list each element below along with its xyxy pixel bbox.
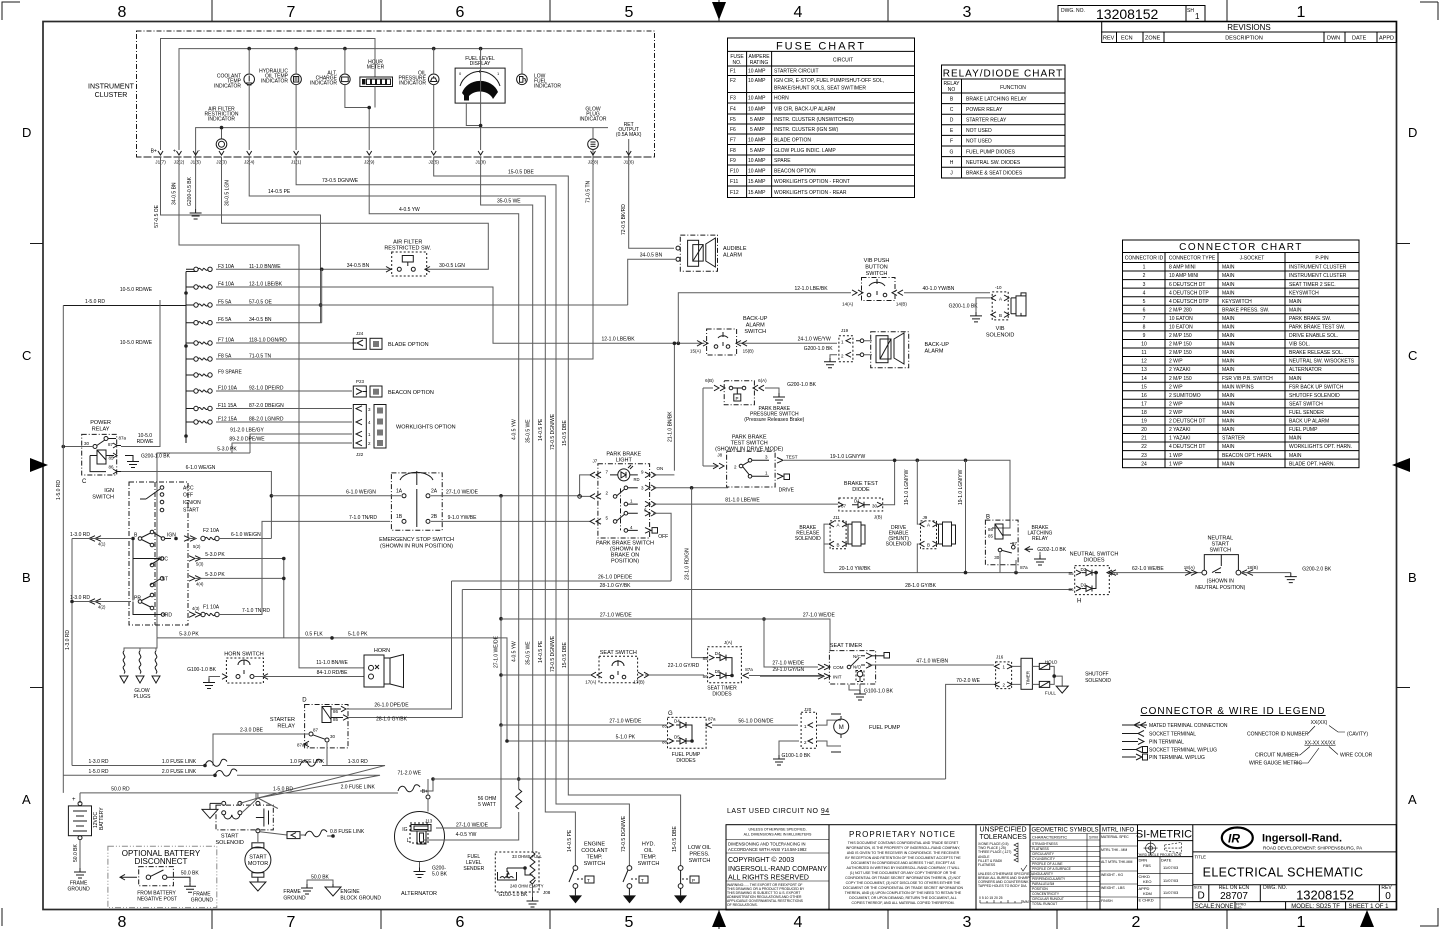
svg-text:28-1.0 GY/BK: 28-1.0 GY/BK: [600, 583, 632, 589]
svg-text:2: 2: [1132, 914, 1141, 929]
svg-text:J19: J19: [841, 328, 849, 333]
svg-text:MAIN: MAIN: [1289, 376, 1302, 382]
svg-text:27-1.0 WE/DE: 27-1.0 WE/DE: [446, 489, 479, 495]
svg-text:7: 7: [287, 4, 296, 21]
svg-text:10 AMP: 10 AMP: [748, 78, 766, 84]
svg-text:G200-0.5 BK: G200-0.5 BK: [187, 176, 193, 206]
svg-text:THIRD ANGLE PROJECTION: THIRD ANGLE PROJECTION: [1137, 853, 1182, 857]
svg-text:23: 23: [1141, 453, 1147, 459]
svg-text:1-3.0 RD: 1-3.0 RD: [70, 532, 90, 538]
start solenoid: [202, 793, 287, 846]
svg-text:F8: F8: [730, 148, 736, 154]
svg-text:SEAT SWITCH: SEAT SWITCH: [600, 650, 637, 656]
svg-text:TEMP.: TEMP.: [640, 855, 657, 861]
svg-text:KDM: KDM: [1143, 891, 1152, 896]
svg-text:2 M/P 280: 2 M/P 280: [1169, 307, 1192, 313]
svg-text:M: M: [839, 725, 844, 731]
svg-text:B: B: [837, 543, 840, 548]
svg-text:HORN: HORN: [774, 96, 789, 102]
wire 15-0.5 DBE: [434, 157, 681, 866]
wire 12-1.0 LBE/BK to blade (right side): [836, 342, 838, 344]
svg-text:50.0 BK: 50.0 BK: [181, 870, 199, 876]
svg-text:P: P: [736, 396, 739, 401]
svg-text:INFORMATION, IS THE PROPERTY O: INFORMATION, IS THE PROPERTY OF INGERSOL…: [846, 846, 960, 850]
svg-text:(CAVITY): (CAVITY): [1347, 732, 1368, 738]
wire 71-0.5 TN: [216, 157, 593, 359]
cluster top bus line 1: [161, 39, 376, 151]
svg-text:RELAY/DIODE CHART: RELAY/DIODE CHART: [943, 69, 1064, 80]
svg-text:86: 86: [703, 674, 709, 679]
svg-text:(1) NOT USE THE DOCUMENT OR AN: (1) NOT USE THE DOCUMENT OR ANY COPY THE…: [850, 871, 957, 875]
back-up alarm switch: [690, 316, 768, 355]
seat timer: [760, 617, 994, 700]
Ingersoll-Rand logo: [1222, 828, 1363, 851]
svg-text:INGERSOLL-RAND COMPANY: INGERSOLL-RAND COMPANY: [728, 866, 827, 873]
svg-text:9-1.0 YW/BE: 9-1.0 YW/BE: [448, 515, 477, 521]
svg-text:2 W/P: 2 W/P: [1169, 402, 1183, 408]
svg-text:D5: D5: [674, 735, 680, 740]
svg-text:NO.: NO.: [1236, 906, 1242, 910]
svg-text:85: 85: [662, 724, 668, 729]
svg-text:MAIN: MAIN: [1222, 325, 1235, 331]
svg-text:1 W/P: 1 W/P: [1169, 453, 1183, 459]
fuse F6: [186, 317, 272, 325]
REVISIONS table: [1102, 22, 1397, 43]
svg-text:CONCENTRICITY: CONCENTRICITY: [1032, 892, 1060, 896]
svg-text:2: 2: [1143, 273, 1146, 279]
svg-text:+: +: [72, 797, 76, 803]
svg-text:INDICATOR: INDICATOR: [579, 117, 606, 123]
svg-text:2B: 2B: [431, 514, 438, 520]
svg-text:MODEL: SD25 TF: MODEL: SD25 TF: [1291, 904, 1340, 910]
svg-text:NEUTRAL SW. DIODES: NEUTRAL SW. DIODES: [966, 160, 1021, 166]
wire 56-1.0 DGN/DE: [712, 724, 798, 726]
svg-text:N/O: N/O: [853, 665, 862, 670]
svg-text:CONNECTOR ID NUMBER: CONNECTOR ID NUMBER: [1247, 732, 1309, 738]
svg-text:5 AMP: 5 AMP: [750, 148, 765, 154]
svg-text:EMERGENCY STOP SWITCH: EMERGENCY STOP SWITCH: [379, 537, 454, 543]
svg-text:E CHKD: E CHKD: [1139, 898, 1154, 903]
svg-text:THEREIN, AND (4) UPON COMPLETI: THEREIN, AND (4) UPON COMPLETION OF THE …: [845, 891, 962, 895]
svg-text:THIS DOCUMENT CONTAINS CONFIDE: THIS DOCUMENT CONTAINS CONFIDENTIAL AND …: [848, 841, 959, 845]
svg-text:14: 14: [1141, 376, 1147, 382]
wire 9-1.0 YW/BE: [431, 520, 590, 522]
svg-text:REV: REV: [1103, 36, 1115, 42]
connector J19: [824, 328, 864, 368]
svg-text:240 OHM EMPTY: 240 OHM EMPTY: [510, 884, 544, 889]
svg-text:30: 30: [994, 555, 1000, 560]
svg-text:(0.5A MAX): (0.5A MAX): [616, 132, 642, 138]
svg-text:50.0 RD: 50.0 RD: [111, 786, 130, 792]
svg-text:10 AMP MINI: 10 AMP MINI: [1169, 273, 1198, 279]
svg-text:AND IS GIVEN TO THE RECEIVER: AND IS GIVEN TO THE RECEIVER IN CONFIDEN…: [847, 851, 960, 855]
wire 34-0.5 BN into alarm: [628, 259, 676, 305]
svg-text:SYM: SYM: [1089, 835, 1098, 840]
svg-text:87: 87: [313, 728, 319, 733]
wire 27-1.0 WE/DE out of estop: [431, 495, 580, 497]
glow plugs: [120, 632, 507, 742]
svg-text:19-1.0 LGN/YW: 19-1.0 LGN/YW: [958, 469, 964, 505]
svg-text:PARK BRAKE SW.: PARK BRAKE SW.: [1289, 316, 1331, 322]
svg-text:IGN CIR, E-STOP, FUEL PUMP/SHU: IGN CIR, E-STOP, FUEL PUMP/SHUT-OFF SOL,: [774, 78, 884, 84]
wire 72-0.5 BK/RD: [629, 157, 674, 248]
svg-text:J11: J11: [833, 515, 840, 520]
svg-text:MAIN: MAIN: [1289, 307, 1302, 313]
svg-text:ACCORDANCE WITH ANSI Y14.5M-19: ACCORDANCE WITH ANSI Y14.5M-1982: [728, 847, 807, 852]
svg-text:START: START: [249, 855, 267, 861]
alternator: [395, 725, 946, 897]
coolant temp indicator: [214, 49, 255, 150]
svg-text:15-0.5 DBE: 15-0.5 DBE: [562, 641, 568, 668]
svg-text:B: B: [1408, 570, 1417, 585]
svg-text:J-SOCKET: J-SOCKET: [1240, 256, 1265, 262]
svg-text:20: 20: [1141, 427, 1147, 433]
fuse bus left: [63, 272, 196, 447]
svg-text:ECN: ECN: [1121, 36, 1133, 42]
horn: [364, 648, 404, 688]
wire 62-1.0 WE/BE: [1110, 572, 1202, 574]
svg-text:FUEL PUMP: FUEL PUMP: [869, 725, 901, 731]
svg-text:2 W/P: 2 W/P: [1169, 384, 1183, 390]
svg-text:17(A): 17(A): [585, 679, 597, 684]
svg-text:BRAKE RELEASE SOL.: BRAKE RELEASE SOL.: [1289, 350, 1343, 356]
svg-text:NEUTRAL SW. W/SOCKETS: NEUTRAL SW. W/SOCKETS: [1289, 359, 1355, 365]
svg-text:0: 0: [1385, 891, 1391, 902]
wires below instrument cluster: [154, 157, 681, 866]
seat switch: [501, 650, 704, 684]
pin1: [624, 502, 628, 506]
svg-text:(Pressure Releases Brake): (Pressure Releases Brake): [744, 417, 804, 423]
led: [618, 469, 630, 481]
pin arrows + ids: [89, 536, 101, 542]
svg-text:CONNECTOR ID: CONNECTOR ID: [1125, 256, 1164, 262]
svg-text:G200-1.0 BK: G200-1.0 BK: [949, 303, 979, 309]
svg-text:50.0 BK: 50.0 BK: [73, 844, 79, 862]
svg-text:GEOMETRIC SYMBOLS: GEOMETRIC SYMBOLS: [1031, 828, 1098, 834]
svg-text:H: H: [950, 160, 954, 166]
wire F6: [216, 322, 322, 324]
svg-text:BACK UP ALARM: BACK UP ALARM: [1289, 419, 1329, 425]
svg-text:14-0.5 PE: 14-0.5 PE: [538, 418, 544, 441]
optional battery disconnect: [108, 846, 217, 907]
wire A,B to 20-1.0: [824, 524, 828, 573]
hour meter: [360, 60, 393, 110]
wire F4 12-1.0 LBE/BK: [216, 287, 837, 343]
svg-text:89-2.0 DPE/WE: 89-2.0 DPE/WE: [229, 437, 265, 443]
battery: [67, 797, 105, 893]
wire 81-1.0 LBE/WE: [653, 503, 838, 505]
svg-text:24-1.0 WE/YW: 24-1.0 WE/YW: [798, 337, 831, 343]
back-up alarm: [864, 332, 949, 368]
svg-text:MAIN: MAIN: [1222, 342, 1235, 348]
svg-text:IGN/ON: IGN/ON: [183, 500, 201, 506]
svg-text:MATERIAL SPEC: MATERIAL SPEC: [1101, 835, 1129, 839]
hyd oil temp switch: [621, 815, 659, 903]
svg-text:HORN SWITCH: HORN SWITCH: [224, 652, 263, 658]
bottom tick marks: [212, 910, 1227, 929]
DWG NO box top: [1058, 6, 1205, 23]
svg-text:2A: 2A: [431, 489, 438, 495]
svg-text:BLADE OPT. HARN.: BLADE OPT. HARN.: [1289, 461, 1335, 467]
wire 26-1.0 DPE/DE to relay: [346, 581, 452, 709]
svg-text:COPY THE DOCUMENT, (3) NOT DIS: COPY THE DOCUMENT, (3) NOT DISCLOSE TO O…: [846, 881, 961, 885]
fuse F8: [186, 354, 272, 362]
svg-text:CIRCUIT: CIRCUIT: [833, 58, 853, 64]
svg-text:MAIN: MAIN: [1289, 299, 1302, 305]
svg-text:57-0.5 OE: 57-0.5 OE: [154, 204, 160, 227]
svg-text:UNSPECIFIED: UNSPECIFIED: [979, 827, 1026, 834]
svg-text:2 M/P 150: 2 M/P 150: [1169, 333, 1192, 339]
svg-text:1 YAZAKI: 1 YAZAKI: [1169, 436, 1191, 442]
svg-text:STARTER RELAY: STARTER RELAY: [966, 118, 1007, 124]
wire 27-1.0 WE/DE long mid: [501, 619, 830, 650]
wire J7 pin6 down to 26-1.0: [653, 513, 671, 581]
svg-text:MAIN: MAIN: [1222, 273, 1235, 279]
svg-text:N/C: N/C: [853, 654, 862, 659]
svg-text:F6: F6: [730, 127, 736, 133]
svg-text:10 EATON: 10 EATON: [1169, 325, 1193, 331]
svg-text:10 EATON: 10 EATON: [1169, 316, 1193, 322]
oil pressure indicator: [398, 49, 439, 150]
svg-text:ALL RIGHTS RESERVED: ALL RIGHTS RESERVED: [728, 875, 809, 882]
svg-text:1-3.0 RD: 1-3.0 RD: [88, 759, 108, 765]
svg-text:14(B): 14(B): [896, 302, 908, 307]
svg-text:35-0.5 WE: 35-0.5 WE: [526, 641, 532, 665]
svg-text:C: C: [82, 479, 87, 485]
svg-text:4-0.5 YW: 4-0.5 YW: [512, 419, 518, 440]
svg-text:11/07/03: 11/07/03: [1163, 890, 1179, 895]
fuse F5: [186, 300, 272, 308]
svg-text:12-1.0 LBE/BK: 12-1.0 LBE/BK: [601, 337, 635, 343]
svg-text:ALT MTRL THK-MM: ALT MTRL THK-MM: [1101, 860, 1132, 864]
svg-text:50.0 BK: 50.0 BK: [311, 875, 329, 881]
svg-text:OFF: OFF: [658, 534, 668, 540]
svg-text:WORKLIGHTS OPTION - FRONT: WORKLIGHTS OPTION - FRONT: [774, 179, 850, 185]
svg-text:NOT USED: NOT USED: [966, 128, 992, 134]
svg-text:3: 3: [963, 914, 972, 929]
svg-text:GROUND: GROUND: [191, 898, 214, 904]
svg-text:IR: IR: [1228, 832, 1240, 846]
node joining 57OE/F6: [321, 269, 323, 322]
svg-text:1-5.0 RD: 1-5.0 RD: [88, 769, 108, 775]
zone letters left: [22, 125, 31, 807]
instrument cluster: [88, 31, 655, 165]
svg-text:RELAY: RELAY: [1032, 536, 1049, 542]
svg-text:P23: P23: [356, 379, 365, 384]
svg-text:F5: F5: [730, 117, 736, 123]
svg-text:72-0.5 BK/RD: 72-0.5 BK/RD: [621, 204, 627, 235]
svg-text:1 W/P: 1 W/P: [1169, 461, 1183, 467]
svg-text:A: A: [837, 523, 840, 528]
svg-text:D: D: [22, 125, 31, 140]
wire 21-1.0 BN/BK: [673, 343, 675, 470]
svg-text:F5 5A: F5 5A: [218, 300, 232, 306]
svg-text:D: D: [1198, 891, 1205, 902]
svg-text:SOCKET TERMINAL: SOCKET TERMINAL: [1149, 732, 1196, 738]
wire J7 pin9 to 21-1.0: [653, 474, 674, 476]
fuse F3: [186, 264, 281, 272]
svg-text:MTRL THK - MM: MTRL THK - MM: [1101, 848, 1127, 852]
brake release solenoid: [795, 515, 865, 573]
svg-text:BEACON OPT. HARN.: BEACON OPT. HARN.: [1222, 453, 1273, 459]
svg-text:FINISH: FINISH: [1101, 899, 1113, 903]
svg-text:MOTOR: MOTOR: [248, 861, 268, 867]
svg-text:J16: J16: [996, 655, 1004, 660]
svg-text:6-1.0 WE/GN: 6-1.0 WE/GN: [346, 489, 376, 495]
svg-text:18: 18: [1141, 410, 1147, 416]
logo + title + numbers: [1193, 828, 1397, 911]
svg-text:28707: 28707: [1220, 891, 1248, 902]
svg-text:B: B: [999, 313, 1002, 318]
svg-text:SOLENOID: SOLENOID: [986, 333, 1014, 339]
svg-text:F7: F7: [730, 138, 736, 144]
svg-text:COM: COM: [833, 665, 844, 670]
svg-text:NOT USED: NOT USED: [966, 139, 992, 145]
svg-text:71-2.0 WE: 71-2.0 WE: [397, 770, 421, 776]
horn switch: [187, 652, 364, 689]
wire J7 pin3 to test switch: [653, 487, 728, 489]
svg-text:J08: J08: [543, 890, 551, 895]
wire 29-1.0 into INIT: [760, 675, 824, 677]
svg-text:F1: F1: [730, 69, 736, 75]
wire feeds into solenoid: [240, 793, 278, 813]
last used circuit note: [727, 808, 830, 815]
ret output note: [616, 122, 642, 157]
svg-text:34-0.5 BN: 34-0.5 BN: [640, 253, 663, 259]
svg-text:1-5.0 RD: 1-5.0 RD: [273, 786, 293, 792]
svg-text:62-1.0 WE/BE: 62-1.0 WE/BE: [1132, 566, 1164, 572]
svg-text:MAIN: MAIN: [1222, 359, 1235, 365]
svg-text:MAIN W/PINS: MAIN W/PINS: [1222, 384, 1254, 390]
svg-text:SCALE:NONE: SCALE:NONE: [1195, 904, 1234, 910]
fuse F1: [201, 521, 390, 616]
svg-text:6(A): 6(A): [758, 378, 767, 383]
svg-text:1.0 FUSE LINK: 1.0 FUSE LINK: [290, 759, 325, 765]
svg-text:FULL: FULL: [1045, 691, 1057, 696]
svg-text:F12: F12: [730, 190, 739, 196]
svg-text:KEYSWITCH: KEYSWITCH: [1222, 299, 1252, 305]
svg-text:DOCUMENT, OR UPON DEMAND, RETU: DOCUMENT, OR UPON DEMAND, RETURN THE DOC…: [849, 896, 957, 900]
svg-text:2 M/P 150: 2 M/P 150: [1169, 350, 1192, 356]
svg-text:15-0.5 DBE: 15-0.5 DBE: [508, 170, 535, 176]
svg-text:15(A): 15(A): [690, 349, 702, 354]
svg-text:20-1.0 YW/BK: 20-1.0 YW/BK: [839, 566, 871, 572]
svg-text:2 W/P: 2 W/P: [1169, 410, 1183, 416]
svg-text:5-3.0 PK: 5-3.0 PK: [179, 632, 199, 638]
svg-text:1: 1: [1297, 914, 1306, 929]
ground G200-0.5 BK: [195, 157, 197, 209]
svg-text:CLUSTER: CLUSTER: [95, 92, 128, 99]
wire relay out bottom 6-1.0 WE/GN: [121, 472, 271, 539]
svg-text:FUEL PUMP DIODES: FUEL PUMP DIODES: [966, 149, 1016, 155]
wire 47-1.0 WE/BN: [868, 664, 994, 666]
col3 unspecified tolerances: [978, 827, 1033, 905]
connector P23 beacon option: [353, 379, 434, 397]
svg-text:MAIN: MAIN: [1222, 444, 1235, 450]
svg-text:A: A: [22, 792, 31, 807]
svg-text:XX(XX): XX(XX): [1311, 720, 1328, 726]
svg-text:RD/WE: RD/WE: [137, 439, 154, 445]
svg-text:30: 30: [872, 504, 878, 509]
svg-text:DWN: DWN: [1327, 36, 1340, 42]
svg-text:CYLINDRICITY: CYLINDRICITY: [1032, 857, 1056, 861]
svg-text:27-1.0 WE/DE: 27-1.0 WE/DE: [772, 661, 805, 667]
svg-text:6: 6: [456, 914, 465, 929]
park brake test switch: [703, 435, 798, 494]
svg-text:A: A: [1408, 792, 1417, 807]
svg-text:27-1.0 WE/DE: 27-1.0 WE/DE: [600, 613, 633, 619]
svg-text:BATTERY: BATTERY: [99, 807, 105, 830]
svg-text:4(3): 4(3): [192, 606, 200, 611]
svg-text:DIODES: DIODES: [1083, 558, 1104, 564]
svg-text:J22: J22: [356, 452, 364, 457]
svg-text:WIRE GAUGE METRIC: WIRE GAUGE METRIC: [1249, 761, 1302, 767]
svg-text:SEAT TIMER 2 SEC.: SEAT TIMER 2 SEC.: [1289, 282, 1336, 288]
wire 28-1.0 GY/BK long: [462, 589, 1072, 591]
svg-text:10 AMP: 10 AMP: [748, 69, 766, 75]
audible alarm: [676, 235, 747, 271]
svg-text:FUNCTION: FUNCTION: [1000, 85, 1026, 91]
svg-text:10 AMP: 10 AMP: [748, 107, 766, 113]
glow plug indicator: [579, 107, 606, 158]
svg-text:2 SUMITOMO: 2 SUMITOMO: [1169, 393, 1201, 399]
svg-text:40-1.0 YW/BN: 40-1.0 YW/BN: [922, 286, 954, 292]
col4 geometric symbols: [1030, 828, 1100, 911]
svg-text:G100-1.0 BK: G100-1.0 BK: [187, 667, 217, 673]
svg-text:C: C: [950, 107, 954, 113]
svg-text:FRAME: FRAME: [283, 889, 301, 895]
svg-text:84-1.0 RD/BE: 84-1.0 RD/BE: [317, 670, 349, 676]
svg-text:Ingersoll-Rand.: Ingersoll-Rand.: [1262, 833, 1342, 845]
svg-text:IG: IG: [402, 827, 407, 833]
svg-text:STRAIGHTNESS: STRAIGHTNESS: [1032, 842, 1058, 846]
starter relay: [213, 581, 462, 766]
wire 70-2.0 WE: [946, 684, 994, 779]
svg-text:DATE: DATE: [1352, 36, 1367, 42]
svg-text:5(3): 5(3): [196, 562, 204, 567]
svg-text:SIZE: SIZE: [1194, 886, 1203, 890]
svg-text:2 YAZAKI: 2 YAZAKI: [1169, 427, 1191, 433]
wire 26-1.0 DPE/DE long: [452, 580, 672, 582]
svg-text:ALL DIMENSIONS ARE IN MILLIMET: ALL DIMENSIONS ARE IN MILLIMETERS: [744, 833, 812, 837]
svg-text:J24: J24: [356, 331, 364, 336]
svg-text:10 AMP: 10 AMP: [748, 158, 766, 164]
wire 1-3.0 RD / 1.0 fuse link row: [72, 765, 205, 767]
svg-text:11-1.0 BN/WE: 11-1.0 BN/WE: [316, 660, 348, 666]
park brake pressure switch: [703, 378, 817, 466]
svg-text:PLUGS: PLUGS: [134, 694, 152, 700]
svg-text:MAIN: MAIN: [1222, 290, 1235, 296]
air filter restriction indicator: [196, 107, 608, 158]
wire 91-2.0 LBE/GY: [250, 434, 352, 453]
svg-text:G200-1.0 BK: G200-1.0 BK: [141, 454, 171, 460]
svg-text:86: 86: [333, 709, 339, 714]
svg-text:5(2): 5(2): [193, 544, 201, 549]
svg-text:1-3.0 RD: 1-3.0 RD: [65, 630, 71, 650]
svg-text:POSITION: POSITION: [1032, 887, 1048, 891]
svg-text:WORKLIGHTS OPTION - REAR: WORKLIGHTS OPTION - REAR: [774, 190, 847, 196]
svg-text:87a: 87a: [745, 667, 753, 672]
wire 5-1.0 PK into diodes: [507, 740, 667, 742]
svg-text:D: D: [1408, 125, 1417, 140]
svg-text:COPIES THEREOF, AND ALL MATERI: COPIES THEREOF, AND ALL MATERIAL COPIED …: [851, 901, 954, 905]
svg-text:19: 19: [1141, 419, 1147, 425]
svg-text:T: T: [641, 878, 644, 883]
svg-text:86: 86: [662, 740, 668, 745]
svg-text:ZONE: ZONE: [1145, 36, 1161, 42]
svg-text:81-1.0 LBE/WE: 81-1.0 LBE/WE: [725, 498, 760, 504]
svg-text:SEAT SWITCH: SEAT SWITCH: [1289, 402, 1323, 408]
